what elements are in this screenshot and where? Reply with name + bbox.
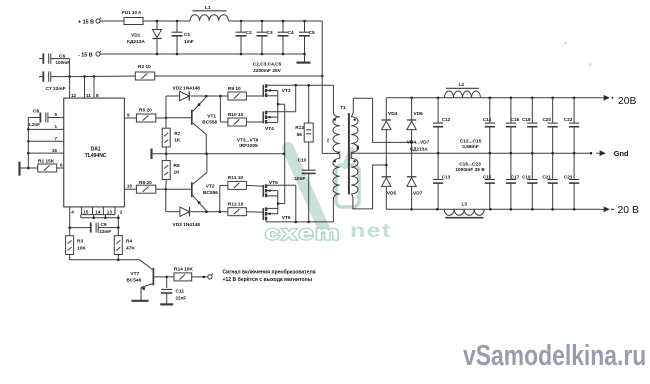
T1 phase dot secondary upper	[353, 118, 355, 120]
wire R9 to VT3 gate	[246, 95, 263, 97]
ground under VT7	[132, 300, 149, 302]
svg-text:VD4: VD4	[388, 111, 398, 117]
svg-text:4: 4	[71, 210, 74, 215]
ground under C11	[160, 303, 173, 305]
T1 secondary winding II lower	[350, 153, 352, 158]
svg-text:R10 10: R10 10	[228, 112, 244, 118]
svg-text:R13: R13	[295, 125, 304, 131]
svg-text:DA1: DA1	[91, 147, 101, 153]
wire R12 to VT6 gate	[246, 211, 263, 214]
driver ground rail	[150, 149, 152, 160]
source bus lower junction	[277, 202, 280, 205]
svg-text:1000mF 35 В: 1000mF 35 В	[455, 167, 485, 173]
svg-text:C13: C13	[442, 175, 451, 180]
svg-text:16: 16	[52, 148, 58, 153]
T1 primary bottom feed	[333, 194, 339, 222]
svg-text:100mF: 100mF	[56, 60, 71, 65]
svg-text:10nF: 10nF	[295, 176, 306, 181]
source bus column	[284, 104, 286, 203]
wire R6 to base node	[156, 188, 166, 190]
IC pin14 stub	[93, 215, 95, 218]
svg-text:8: 8	[96, 93, 99, 98]
IC pin2 stub down	[117, 215, 119, 228]
svg-text:0,68mF: 0,68mF	[462, 144, 479, 150]
svg-text:VT2: VT2	[206, 184, 215, 190]
svg-text:VT1: VT1	[207, 114, 216, 120]
svg-text:9: 9	[127, 112, 130, 117]
speck 1	[564, 42, 566, 44]
svg-text:R4: R4	[126, 238, 132, 244]
svg-text:VD2 1N4148: VD2 1N4148	[173, 86, 201, 92]
svg-text:7: 7	[54, 136, 57, 141]
wire base to VT1	[166, 117, 191, 119]
svg-text:VD1: VD1	[131, 32, 141, 38]
svg-text:IRF3205: IRF3205	[239, 143, 258, 149]
svg-text:C23: C23	[564, 175, 573, 180]
speck 2	[589, 63, 591, 65]
svg-text:+12 В берётся с выхода магнито: +12 В берётся с выхода магнитолы	[223, 276, 313, 283]
wire R11 to VT5 gate	[246, 184, 263, 187]
svg-text:VT6: VT6	[282, 215, 291, 221]
T1 primary winding I upper	[333, 117, 340, 153]
T1 phase dot secondary lower	[353, 160, 355, 162]
svg-text:22nF: 22nF	[176, 295, 187, 300]
svg-text:C16...C23: C16...C23	[459, 161, 481, 167]
T1 phase dot primary lower	[334, 160, 336, 162]
svg-text:6: 6	[60, 162, 63, 167]
svg-text:1K: 1K	[174, 170, 181, 176]
svg-text:C16: C16	[511, 117, 520, 122]
svg-text:VD3 1N4148: VD3 1N4148	[173, 222, 201, 228]
wire VD2 node	[206, 95, 228, 97]
svg-text:15: 15	[83, 210, 89, 215]
IC pin13 stub	[104, 215, 106, 218]
svg-text:C2: C2	[246, 30, 252, 36]
svg-text:2: 2	[120, 210, 123, 215]
svg-text:VT3...VT6: VT3...VT6	[237, 137, 259, 143]
wire gnd to R1	[20, 167, 38, 169]
IC bottom pin strip	[81, 207, 83, 215]
svg-text:R7: R7	[174, 131, 180, 137]
output -20V arrow	[600, 207, 609, 212]
svg-text:13: 13	[107, 210, 113, 215]
svg-text:VT7: VT7	[130, 271, 139, 277]
svg-text:R5 20: R5 20	[139, 107, 152, 113]
IC DA1 TL494NC	[64, 98, 125, 207]
wire R5 to base node	[156, 117, 166, 119]
svg-text:C21: C21	[542, 175, 551, 180]
svg-text:II: II	[356, 145, 359, 151]
svg-text:VD7: VD7	[413, 191, 423, 197]
svg-text:C14: C14	[483, 117, 492, 122]
T1 primary center tap	[322, 152, 336, 154]
wire R10 to VT4 gate	[246, 121, 263, 123]
svg-text:C2,C3,C4,C5: C2,C3,C4,C5	[253, 62, 282, 68]
svg-text:1,2nF: 1,2nF	[28, 122, 40, 127]
svg-text:+ 15 В: + 15 В	[78, 19, 94, 25]
T1 secondary top feed (end A)	[351, 98, 411, 142]
svg-text:cxem: cxem	[265, 222, 341, 244]
T1 secondary winding II upper	[351, 117, 358, 153]
svg-text:47K: 47K	[126, 245, 135, 251]
svg-text:5: 5	[54, 112, 57, 117]
svg-text:R14 10K: R14 10K	[174, 267, 193, 273]
wire fuse to L1	[143, 20, 190, 22]
svg-text:C12...C15: C12...C15	[460, 139, 482, 145]
svg-text:R11 10: R11 10	[228, 175, 244, 181]
T1 primary winding I lower	[333, 158, 340, 194]
svg-text:R12 10: R12 10	[228, 202, 244, 208]
svg-text:КД213А: КД213А	[410, 147, 428, 153]
svg-text:L2: L2	[459, 82, 465, 88]
T1 core	[348, 113, 350, 195]
wire R9 node down to R10	[219, 96, 221, 122]
left bias column	[27, 118, 29, 169]
wire L1 to +15 column	[228, 20, 322, 22]
svg-text:C18: C18	[522, 117, 531, 122]
svg-text:КД213А: КД213А	[127, 39, 145, 45]
svg-text:net: net	[350, 220, 392, 241]
svg-text:14: 14	[95, 210, 101, 215]
svg-text:C1: C1	[184, 32, 190, 38]
wire R3 R4 to VT7 collector	[70, 259, 140, 261]
source bus junction	[277, 103, 280, 106]
svg-text:20В: 20В	[618, 96, 637, 107]
svg-text:R3: R3	[77, 238, 83, 244]
svg-text:C7 22mF: C7 22mF	[46, 86, 66, 92]
+15 feed column down to center tap	[321, 21, 323, 153]
svg-text:56: 56	[297, 132, 303, 138]
svg-text:TL494NC: TL494NC	[85, 153, 107, 159]
wire R14 to input terminal	[192, 276, 208, 278]
svg-text:C19: C19	[522, 175, 531, 180]
svg-text:L1: L1	[205, 5, 211, 11]
wire -15 rail	[100, 53, 304, 55]
IC pin15 stub	[80, 215, 82, 218]
svg-text:BC556: BC556	[202, 120, 217, 126]
svg-text:C17: C17	[511, 175, 520, 180]
T1 phase dot primary upper	[334, 118, 336, 120]
svg-text:R2 10: R2 10	[138, 64, 151, 70]
output Gnd arrow	[590, 152, 593, 155]
svg-text:Сигнал включения преобразовате: Сигнал включения преобразователя	[223, 269, 316, 276]
ground under C5	[304, 54, 306, 62]
svg-text:C3: C3	[267, 30, 273, 36]
IC pin4 stub down	[69, 207, 71, 228]
svg-text:C15: C15	[483, 175, 492, 180]
svg-text:1K: 1K	[174, 137, 181, 143]
wire base node down to VD3	[165, 189, 167, 212]
svg-text:C12: C12	[442, 117, 451, 122]
wire C6 corner down to C7 line	[69, 59, 71, 77]
svg-text:VD4...VD7: VD4...VD7	[407, 140, 430, 146]
wire VT7 base to R14	[154, 276, 174, 278]
svg-text:C8: C8	[33, 109, 39, 115]
T1 secondary center tap to Gnd rail	[350, 151, 352, 154]
svg-text:C4: C4	[288, 30, 294, 36]
svg-text:C5: C5	[309, 30, 315, 36]
wire pins 15-14-13-2	[81, 217, 119, 219]
svg-text:20 В: 20 В	[618, 205, 639, 216]
svg-text:22mF: 22mF	[99, 229, 111, 234]
svg-text:1: 1	[54, 124, 57, 129]
wire base node up to VD2	[165, 96, 167, 118]
output +20V arrow	[600, 96, 609, 101]
svg-text:R8: R8	[174, 163, 180, 169]
+20V rail	[386, 97, 600, 99]
svg-text:FU1 10 A: FU1 10 A	[122, 10, 142, 15]
B' bottom rail	[266, 221, 333, 223]
svg-text:10: 10	[127, 184, 133, 189]
svg-text:Gnd: Gnd	[614, 149, 629, 158]
svg-text:vSamodelkina.ru: vSamodelkina.ru	[463, 338, 646, 371]
svg-text:- 15 В: - 15 В	[78, 52, 93, 58]
-20V rail	[386, 208, 600, 210]
ground bar left	[18, 162, 20, 176]
svg-text:BC546: BC546	[126, 277, 141, 283]
svg-text:1mF: 1mF	[184, 39, 194, 45]
svg-text:12: 12	[71, 93, 77, 98]
svg-text:VD5: VD5	[387, 191, 397, 197]
wire R2 to +15 column	[155, 75, 323, 77]
wire base to VT2	[166, 188, 191, 190]
svg-text:L3: L3	[462, 201, 468, 207]
svg-text:T1: T1	[340, 105, 346, 111]
svg-text:11: 11	[86, 93, 91, 98]
terminal signal input	[208, 275, 212, 279]
wire IC supply line to R2	[70, 75, 136, 78]
svg-text:BC556: BC556	[203, 190, 218, 196]
svg-text:C11: C11	[176, 289, 185, 295]
svg-text:VD6: VD6	[414, 111, 424, 117]
svg-text:2200mF 25V: 2200mF 25V	[253, 68, 282, 74]
svg-text:C20: C20	[542, 117, 551, 122]
svg-text:VT4: VT4	[265, 126, 274, 132]
svg-text:C22: C22	[564, 117, 573, 122]
svg-text:10K: 10K	[77, 245, 86, 251]
watermark cxem.net glyph	[288, 148, 359, 229]
wire +15 to fuse	[100, 20, 124, 22]
svg-text:VT3: VT3	[282, 88, 291, 94]
T1 primary top feed	[333, 85, 339, 117]
svg-text:C10: C10	[298, 157, 307, 163]
T1 secondary bottom feed (end B)	[351, 165, 386, 209]
svg-text:R9 10: R9 10	[228, 86, 241, 92]
